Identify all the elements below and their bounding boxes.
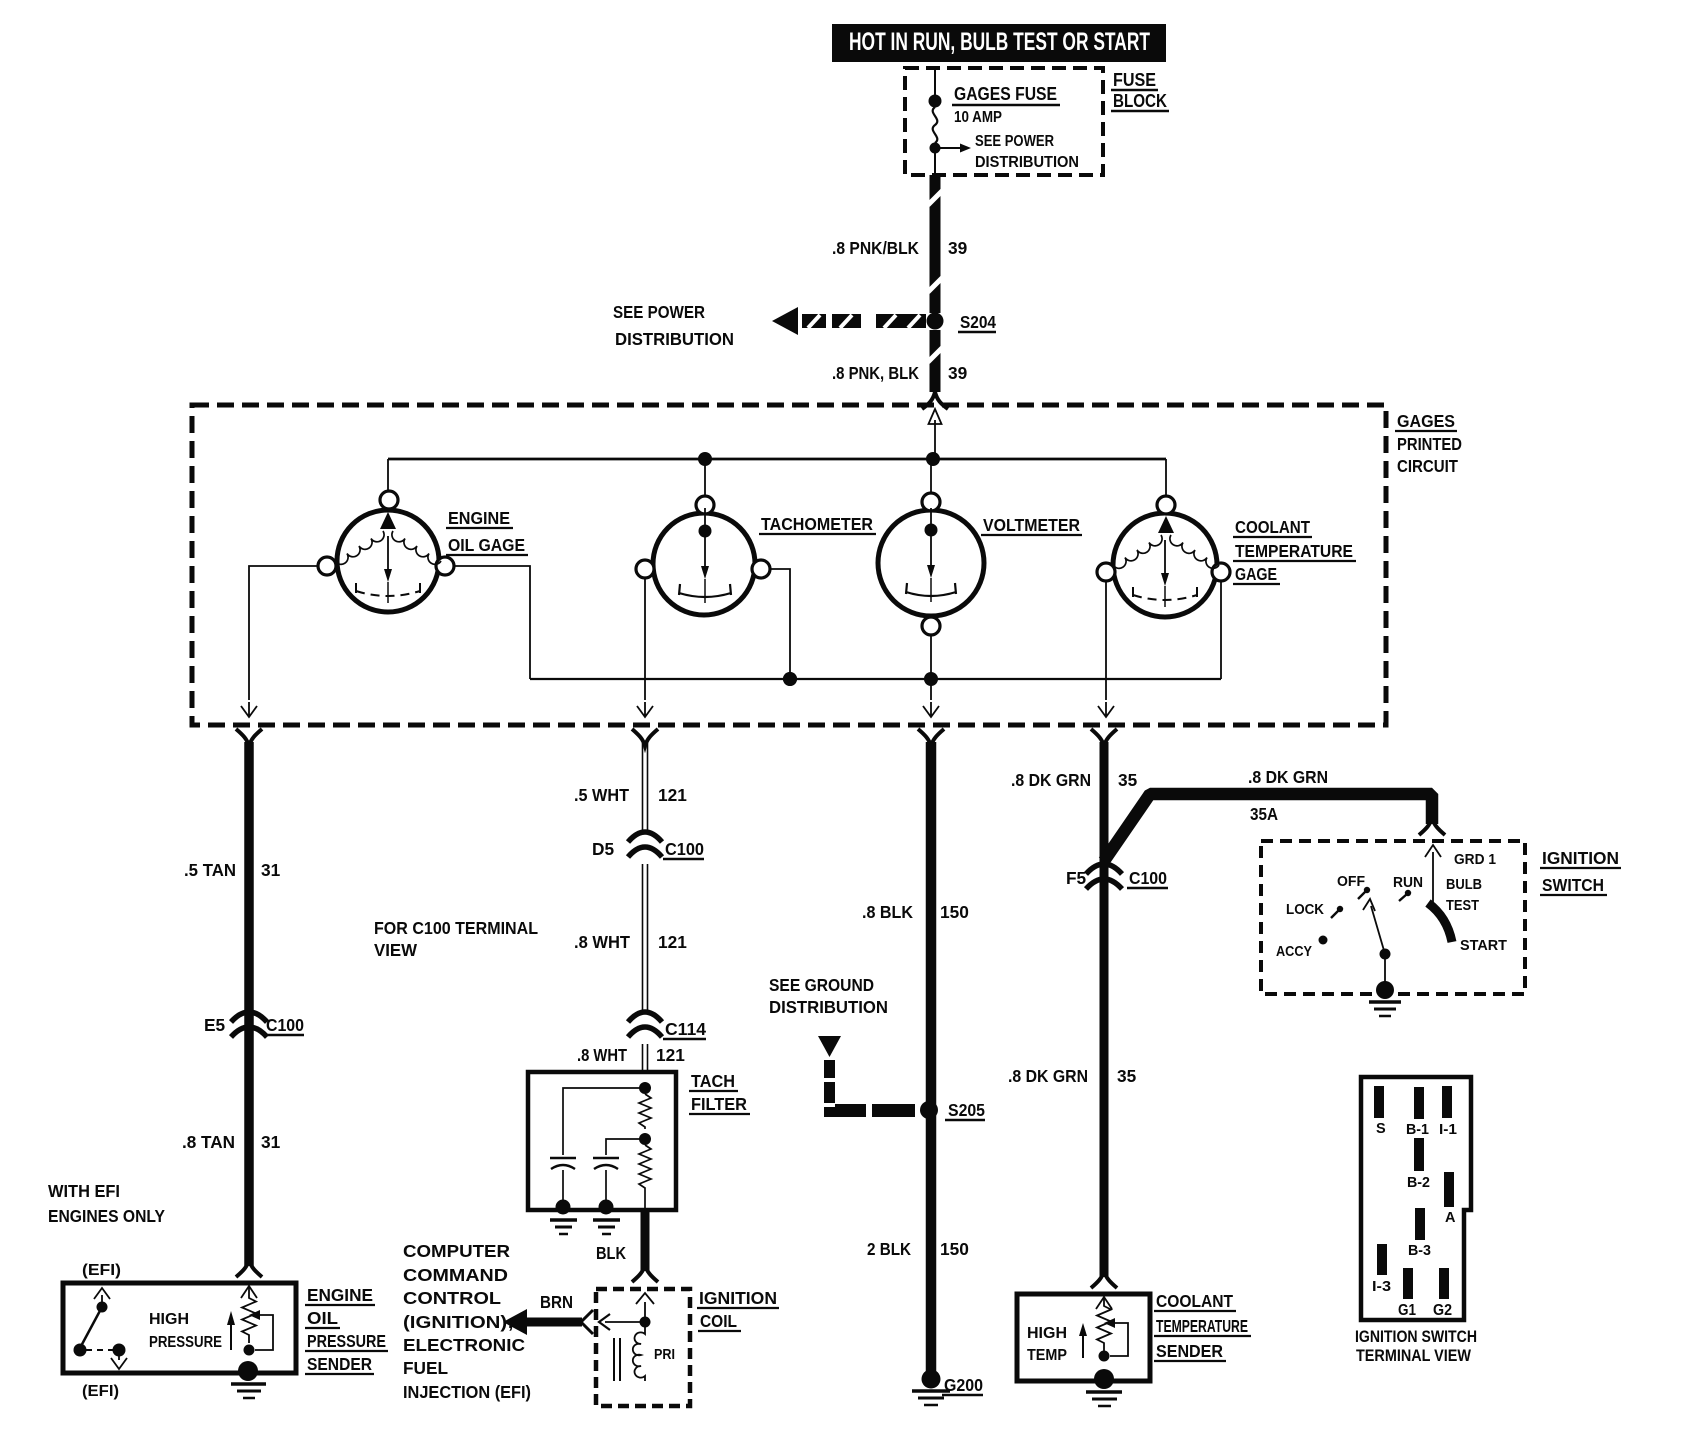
svg-text:C100: C100 [266,1015,304,1035]
svg-text:OFF: OFF [1337,874,1365,890]
svg-text:C100: C100 [1129,868,1167,888]
svg-text:IGNITION: IGNITION [699,1288,777,1308]
ignition switch dashed box [1261,841,1525,994]
svg-text:121: 121 [658,932,687,952]
svg-text:BULB: BULB [1446,877,1482,893]
wire coil to BRN connector [605,1321,645,1323]
label COOLANT TEMPERATURE GAGE [1233,517,1356,584]
svg-text:.8 PNK, BLK: .8 PNK, BLK [832,363,919,383]
svg-text:.8 PNK/BLK: .8 PNK/BLK [832,238,919,258]
label BULB TEST [1446,877,1482,914]
svg-text:SEE POWER: SEE POWER [613,302,705,322]
svg-text:FUEL: FUEL [403,1358,448,1378]
label .8 WHT 121 (above C114) [574,932,687,952]
connector cup ground wire top [918,729,944,746]
svg-text:.8 DK GRN: .8 DK GRN [1248,767,1328,787]
resistor oil pressure sender [242,1286,256,1343]
svg-text:TACH: TACH [691,1071,735,1091]
svg-text:S205: S205 [948,1100,985,1120]
label SEE POWER DISTRIBUTION (fuse box) [975,133,1079,171]
svg-text:COIL: COIL [700,1311,737,1331]
svg-text:31: 31 [261,1132,281,1152]
svg-text:FOR C100 TERMINAL: FOR C100 TERMINAL [374,918,538,938]
connector C114 [628,1012,662,1037]
svg-text:35: 35 [1117,1066,1137,1086]
connector F5 C100 [1086,864,1122,889]
connector cup tach wire top [632,729,658,746]
label S204 [958,312,996,332]
label GAGES PRINTED CIRCUIT [1395,411,1462,476]
junction tach return on lower bus [783,672,797,686]
svg-text:10 AMP: 10 AMP [954,109,1002,126]
svg-text:OIL: OIL [307,1308,338,1328]
svg-text:35: 35 [1118,770,1138,790]
label SEE POWER DISTRIBUTION (left of S204) [613,302,734,349]
label G200 [942,1375,983,1395]
label .5 TAN 31 [184,860,281,880]
node oil sender ground [238,1361,258,1381]
svg-text:I-1: I-1 [1439,1122,1457,1138]
arrow see power distribution (in fuse box) [938,144,971,153]
svg-text:G2: G2 [1433,1302,1452,1319]
gauge M3 VOLTMETER [878,493,984,635]
dashed link EFI switch [86,1349,114,1351]
arrow coolant output at box edge [1098,702,1114,717]
svg-text:.8 WHT: .8 WHT [577,1045,627,1065]
connector cup coolant wire bottom [1091,1271,1117,1288]
svg-text:VOLTMETER: VOLTMETER [983,515,1080,535]
node EFI switch top [97,1302,108,1313]
terminal G2 [1439,1268,1449,1299]
terminal G1 [1403,1268,1413,1299]
svg-text:HOT IN RUN, BULB TEST OR STAR: HOT IN RUN, BULB TEST OR START [849,28,1150,56]
svg-text:(EFI): (EFI) [82,1262,121,1279]
svg-text:ENGINES ONLY: ENGINES ONLY [48,1206,165,1226]
svg-text:COOLANT: COOLANT [1156,1291,1233,1311]
svg-text:LOCK: LOCK [1286,902,1324,918]
switch rotor [1363,899,1391,960]
label COMPUTER COMMAND CONTROL (IGNITION); ELECTRONIC FUEL INJECTION (EFI) [403,1241,531,1402]
svg-text:E5: E5 [204,1015,226,1035]
arrow coil input [636,1293,654,1320]
wiper loop coolant sender [1110,1323,1128,1356]
svg-text:BLK: BLK [596,1243,626,1263]
wire bus to oil gauge [387,459,389,493]
svg-text:TEMPERATURE: TEMPERATURE [1235,541,1353,561]
svg-text:.8 WHT: .8 WHT [574,932,630,952]
gauge M2 TACHOMETER [636,496,770,615]
svg-text:C114: C114 [665,1019,706,1039]
svg-text:S: S [1376,1121,1386,1137]
svg-text:B-3: B-3 [1408,1243,1431,1259]
wiper loop oil sender [255,1315,273,1350]
svg-text:INJECTION (EFI): INJECTION (EFI) [403,1382,531,1402]
svg-text:ELECTRONIC: ELECTRONIC [403,1335,525,1355]
wire .8 BLK 150 / 2 BLK 150 [926,742,937,1378]
svg-text:IGNITION: IGNITION [1542,848,1619,868]
contact RUN [1399,890,1411,901]
wire rotor to ground [1384,958,1386,986]
label HIGH PRESSURE [149,1311,222,1351]
EFI switch blade [80,1307,102,1348]
arrow feed into printed circuit [929,409,942,459]
label .8 PNK,BLK 39 [832,363,967,383]
label .8 DK GRN 35 (lower) [1008,1066,1137,1086]
terminal B-2 [1414,1138,1424,1171]
ground (ignition switch) [1369,1002,1401,1016]
svg-text:(IGNITION);: (IGNITION); [403,1312,514,1332]
junction oil sender wiper [244,1345,255,1356]
svg-text:G1: G1 [1398,1302,1416,1319]
coil primary winding PRI [633,1322,645,1381]
ground (coolant sender) [1086,1392,1122,1406]
label .8 BLK 150 [862,902,969,922]
svg-text:COMMAND: COMMAND [403,1265,508,1285]
arrow voltmeter ground output at box edge [923,702,939,717]
fuse block box [905,68,1103,175]
coil core lines [614,1338,620,1381]
arrow high temp direction [1079,1323,1087,1358]
arrow wiper (coolant) [1104,1318,1115,1328]
arrow oil output at box edge [241,702,257,717]
ground G200 symbol [912,1391,950,1405]
svg-text:DISTRIBUTION: DISTRIBUTION [615,329,734,349]
wire oil gauge left to output [249,566,318,700]
wire voltmeter bottom to lower bus [930,635,932,700]
resistor R2 (tach filter) [639,1145,651,1210]
svg-text:IGNITION SWITCH: IGNITION SWITCH [1355,1328,1477,1346]
svg-text:GAGE: GAGE [1235,564,1277,584]
connector cup BLK wire bottom [632,1265,658,1282]
connector outline [1361,1077,1471,1320]
svg-text:ENGINE: ENGINE [448,508,510,528]
svg-text:ENGINE: ENGINE [307,1285,373,1305]
wire lower bus [530,678,1221,680]
svg-text:COOLANT: COOLANT [1235,517,1310,537]
node C1 ground [556,1200,571,1215]
label .8 DK GRN 35 (upper) [1011,770,1138,790]
svg-text:FILTER: FILTER [691,1094,747,1114]
ground (C1) [550,1220,577,1234]
label .8 TAN 31 [182,1132,281,1152]
wire tach right to lower bus [770,569,790,679]
contact LOCK [1331,906,1343,918]
junction tach filter input [639,1082,651,1094]
label TACH FILTER [689,1071,750,1114]
svg-text:SENDER: SENDER [307,1354,372,1374]
svg-text:VIEW: VIEW [374,940,418,960]
svg-text:COMPUTER: COMPUTER [403,1241,511,1261]
svg-text:.8 BLK: .8 BLK [862,902,913,922]
node S204 [927,313,944,330]
wire upper bus [388,458,1166,461]
label S205 [945,1100,985,1120]
label 2 BLK 150 [867,1239,969,1259]
coolant temperature sender box [1017,1294,1150,1381]
junction coil primary [640,1317,651,1328]
svg-text:.8 DK GRN: .8 DK GRN [1008,1066,1088,1086]
svg-text:I-3: I-3 [1372,1279,1391,1295]
label GAGES FUSE [952,83,1060,105]
ground (C2) [593,1220,620,1234]
node C2 ground [599,1200,614,1215]
junction at voltmeter feed [926,452,940,466]
svg-text:150: 150 [940,1239,969,1259]
junction voltmeter return on lower bus [924,672,938,686]
arrow EFI switch down [111,1354,127,1369]
svg-text:.8 DK GRN: .8 DK GRN [1011,770,1091,790]
banner HOT IN RUN, BULB TEST OR START [832,24,1166,62]
svg-text:F5: F5 [1066,868,1087,888]
wire BLK tach filter to ignition coil [641,1210,650,1271]
wire to capacitor C1 [563,1088,645,1155]
node S205 [920,1101,938,1119]
svg-text:PRI: PRI [654,1347,675,1363]
wire oil gauge right to lower bus [454,566,530,679]
svg-text:39: 39 [948,238,967,258]
svg-text:START: START [1460,938,1507,954]
svg-text:TEST: TEST [1446,898,1479,914]
svg-text:WITH EFI: WITH EFI [48,1181,120,1201]
svg-text:CIRCUIT: CIRCUIT [1397,456,1458,476]
capacitor C2 [593,1158,619,1169]
svg-text:D5: D5 [592,839,614,859]
label C100 [264,1015,304,1035]
terminal I-3 [1377,1244,1387,1275]
svg-text:BLOCK: BLOCK [1113,91,1167,111]
wire capacitor C1 to ground [562,1170,564,1203]
connector cup at gauges box top [922,392,948,409]
gauge M4 COOLANT TEMPERATURE GAGE [1097,496,1230,617]
node coolant sender ground [1094,1369,1114,1389]
junction at tachometer feed [698,452,712,466]
svg-text:.5 WHT: .5 WHT [574,785,629,805]
svg-text:(EFI): (EFI) [82,1383,119,1400]
wire bus to tachometer [704,459,706,497]
arrow wiper (oil) [249,1310,260,1320]
svg-text:31: 31 [261,860,281,880]
node EFI switch left [74,1344,87,1357]
node EFI switch right [113,1344,126,1357]
svg-text:RUN: RUN [1393,875,1423,891]
svg-text:A: A [1445,1210,1456,1226]
wire .8 DK GRN 35A branch to ignition switch [1104,794,1432,861]
resistor R1 (tach filter) [639,1094,651,1129]
svg-text:SENDER: SENDER [1156,1341,1223,1361]
svg-text:HIGH: HIGH [1027,1325,1067,1342]
connector cup coolant wire top [1091,729,1117,746]
svg-text:B-2: B-2 [1407,1175,1430,1191]
svg-text:FUSE: FUSE [1113,70,1156,90]
wire coolant left to output [1105,581,1107,700]
junction oil/tach return crossing [783,672,797,686]
gauge M1 ENGINE OIL GAGE [318,491,454,612]
label IGNITION COIL [697,1288,779,1331]
label .5 WHT 121 [574,785,687,805]
label TACHOMETER [759,514,876,534]
svg-text:DISTRIBUTION: DISTRIBUTION [975,154,1079,171]
wire tach left to output (crosses lower bus) [644,578,646,700]
svg-text:SEE GROUND: SEE GROUND [769,975,874,995]
connector cup 35A wire bottom [1419,818,1445,835]
svg-text:.5 TAN: .5 TAN [184,860,236,880]
arrow BRN to computer command control [503,1309,593,1335]
svg-text:TACHOMETER: TACHOMETER [761,514,873,534]
wire fuse to box edge [934,153,936,175]
svg-text:BRN: BRN [540,1292,573,1312]
capacitor C1 [550,1158,576,1169]
contact OFF [1358,887,1370,899]
arrow tach output at box edge [637,702,653,717]
engine oil pressure sender box [63,1283,296,1373]
wire .5 WHT 121 (double line) [643,742,648,1072]
svg-text:ACCY: ACCY [1276,944,1312,960]
dashed arrow to power distribution [772,307,926,335]
svg-text:HIGH: HIGH [149,1311,189,1328]
svg-text:GAGES FUSE: GAGES FUSE [954,83,1057,104]
svg-text:121: 121 [656,1045,685,1065]
terminal A [1444,1172,1454,1207]
connector D5 C100 [628,832,662,857]
wire bus to coolant gauge [1165,459,1167,497]
resistor coolant sender [1097,1297,1111,1351]
svg-text:SEE POWER: SEE POWER [975,133,1054,150]
wire .8 DK GRN 35 [1100,742,1109,1277]
wire bus to voltmeter [930,459,932,494]
EFI switch arrow up [94,1288,110,1304]
svg-text:TERMINAL VIEW: TERMINAL VIEW [1356,1347,1471,1365]
label C100 (tach) [663,839,704,859]
svg-text:C100: C100 [665,839,704,859]
fuse GAGES FUSE 10 AMP [933,107,938,143]
svg-text:PRINTED: PRINTED [1397,434,1462,454]
svg-text:39: 39 [948,363,967,383]
svg-text:121: 121 [658,785,687,805]
terminal I-1 [1442,1086,1452,1118]
junction coolant sender wiper [1099,1351,1110,1362]
start position crescent [1428,903,1452,942]
svg-text:PRESSURE: PRESSURE [307,1331,386,1351]
terminal B-3 [1415,1208,1425,1240]
svg-text:150: 150 [940,902,969,922]
connector cup oil wire top [236,729,262,746]
label C100 (coolant) [1127,868,1168,888]
svg-text:CONTROL: CONTROL [403,1288,502,1308]
junction tach filter mid [639,1133,651,1145]
tach filter box [528,1072,676,1210]
dashed wire to ground distribution [818,1036,915,1117]
label WITH EFI ENGINES ONLY [48,1181,165,1226]
ignition coil dashed box [596,1289,690,1406]
caption IGNITION SWITCH TERMINAL VIEW [1355,1328,1477,1365]
wire into fuse [934,68,936,100]
svg-text:2 BLK: 2 BLK [867,1239,911,1259]
svg-text:GAGES: GAGES [1397,411,1455,431]
connector E5 C100 [231,1012,267,1037]
contact ACCY [1319,936,1328,945]
svg-text:.8 TAN: .8 TAN [182,1132,235,1152]
arrow ignition switch feed input [1425,845,1441,905]
label FOR C100 TERMINAL VIEW [374,918,538,960]
node fuse top [929,95,942,108]
label VOLTMETER [981,515,1082,535]
label C114 [663,1019,706,1039]
ground (oil sender) [231,1384,266,1398]
label IGNITION SWITCH [1540,848,1621,895]
wire capacitor C2 to ground [605,1170,607,1203]
node ignition switch ground [1376,981,1394,999]
wire to capacitor C2 [606,1139,645,1155]
svg-text:S204: S204 [960,312,996,332]
svg-text:TEMP: TEMP [1027,1347,1067,1364]
svg-text:B-1: B-1 [1406,1122,1429,1138]
gages printed circuit dashed box [192,405,1386,725]
node G200 [922,1370,941,1389]
label HIGH TEMP [1027,1325,1067,1364]
svg-text:PRESSURE: PRESSURE [149,1334,222,1351]
wire coolant right to lower bus end [1220,581,1222,679]
arrow sender input (oil) [241,1286,257,1298]
label FUSE BLOCK [1111,70,1169,111]
svg-text:35A: 35A [1250,804,1278,824]
label .8 PNK/BLK 39 [832,238,967,258]
label SEE GROUND DISTRIBUTION [769,975,888,1017]
svg-text:GRD 1: GRD 1 [1454,852,1496,868]
label COOLANT TEMPERATURE SENDER [1154,1291,1251,1361]
wire .8 PNK/BLK 39 upper (hatched) [928,175,943,313]
wire .5 TAN 31 / .8 TAN 31 [244,742,254,1266]
arrow sender input (coolant) [1096,1297,1112,1309]
wire .8 PNK,BLK 39 lower (hatched) [928,330,943,392]
svg-text:DISTRIBUTION: DISTRIBUTION [769,997,888,1017]
label ENGINE OIL PRESSURE SENDER [305,1285,388,1374]
svg-text:TEMPERATURE: TEMPERATURE [1156,1316,1248,1336]
connector cup oil wire bottom [236,1260,262,1277]
terminal S [1374,1086,1384,1118]
label ENGINE OIL GAGE [446,508,528,555]
terminal B-1 [1414,1087,1424,1119]
arrow high pressure direction [227,1311,235,1350]
node fuse bottom [930,143,941,154]
svg-text:OIL GAGE: OIL GAGE [448,535,525,555]
label .8 WHT 121 (below C114) [577,1045,685,1065]
connector chevron at coil box edge [599,1314,610,1330]
svg-text:SWITCH: SWITCH [1542,875,1604,895]
